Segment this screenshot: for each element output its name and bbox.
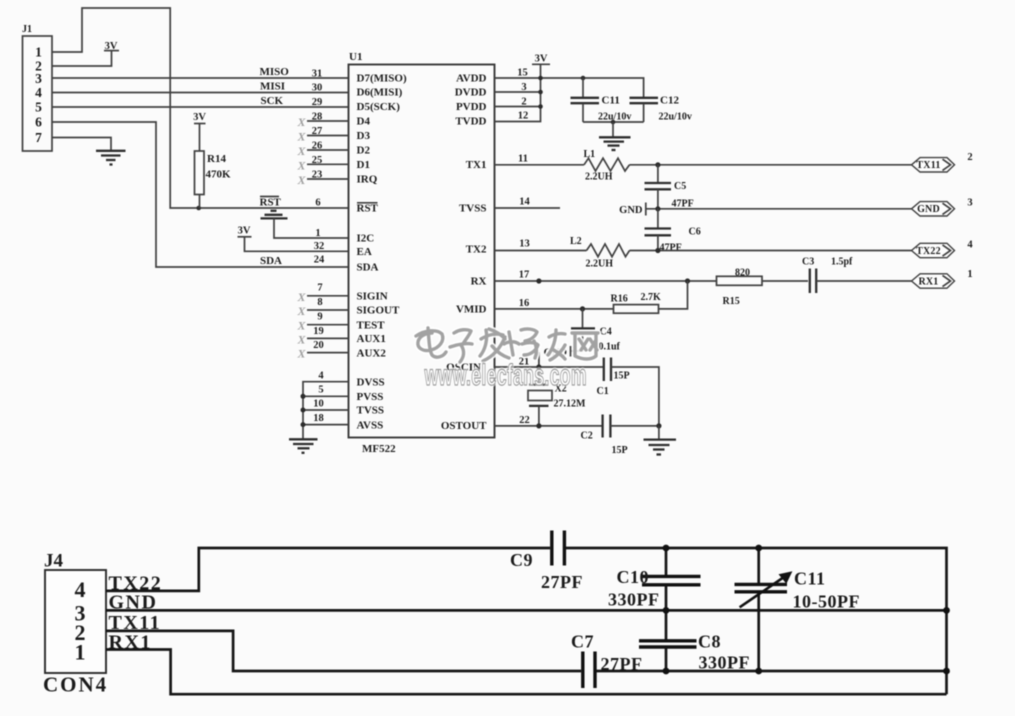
- svg-text:3V: 3V: [535, 54, 548, 65]
- svg-text:4: 4: [35, 85, 42, 100]
- svg-text:I2C: I2C: [357, 233, 375, 245]
- capacitor C8 330PF: [639, 610, 750, 672]
- wire GND rail: [106, 609, 947, 612]
- wire TVDD pin12 and VDD vertical: [495, 64, 541, 121]
- node C1/C2 ground: [656, 423, 661, 428]
- node GND-C5/C6: [655, 206, 660, 211]
- svg-text:1: 1: [315, 228, 320, 239]
- pin 9 stub with no-connect: [307, 324, 349, 326]
- svg-text:27.12M: 27.12M: [554, 399, 587, 410]
- svg-text:J1: J1: [22, 24, 32, 35]
- svg-text:D1: D1: [357, 159, 370, 171]
- wire MISO J1 pin3 to U1 pin31: [52, 77, 349, 79]
- node OSTOUT-crystal: [536, 423, 541, 428]
- node TX11 rail C11: [755, 668, 762, 675]
- svg-text:OSTOUT: OSTOUT: [441, 420, 487, 432]
- svg-text:18: 18: [313, 413, 324, 424]
- svg-text:X: X: [296, 115, 306, 129]
- svg-text:D6(MISI): D6(MISI): [357, 87, 403, 99]
- svg-text:U1: U1: [349, 51, 362, 63]
- svg-text:R14: R14: [207, 153, 226, 165]
- svg-text:MISI: MISI: [260, 81, 285, 93]
- svg-text:2.7K: 2.7K: [641, 292, 662, 303]
- svg-text:GND: GND: [917, 204, 940, 215]
- pin 19 stub with no-connect: [307, 337, 349, 339]
- port tag TX22: [912, 240, 974, 258]
- svg-text:C5: C5: [674, 181, 686, 192]
- svg-text:TX2: TX2: [466, 244, 487, 256]
- svg-text:C11: C11: [794, 569, 826, 589]
- svg-text:6: 6: [315, 198, 320, 209]
- wire TVSS pin14 stub: [495, 207, 561, 209]
- svg-text:X: X: [296, 144, 306, 158]
- wire J1 pin7 to ground: [52, 138, 111, 151]
- svg-text:1: 1: [967, 269, 972, 280]
- svg-text:32: 32: [314, 241, 325, 252]
- svg-text:3: 3: [967, 198, 972, 209]
- node RX-crystal branch: [536, 278, 541, 283]
- svg-text:C2: C2: [581, 431, 593, 442]
- U1 right pin labels: [441, 73, 487, 432]
- resistor R15 820: [717, 268, 809, 308]
- svg-text:X: X: [296, 173, 306, 187]
- capacitor C10 330PF: [608, 548, 701, 610]
- svg-text:AUX2: AUX2: [357, 347, 387, 359]
- node TX2-C6: [655, 248, 660, 253]
- svg-text:47PF: 47PF: [660, 243, 682, 254]
- pin 20 stub with no-connect: [307, 352, 349, 354]
- svg-text:SCK: SCK: [261, 95, 284, 107]
- svg-text:D3: D3: [357, 130, 371, 142]
- svg-text:TVDD: TVDD: [455, 116, 486, 128]
- node VMID-C4: [580, 306, 585, 311]
- svg-text:TX11: TX11: [916, 160, 940, 171]
- svg-text:SDA: SDA: [260, 255, 282, 267]
- capacitor C9 27PF: [510, 531, 583, 593]
- net label GND tick (C4): [544, 346, 571, 359]
- svg-text:22u/10v: 22u/10v: [659, 112, 692, 123]
- wire TX22 J4 pin4 to top rail: [106, 548, 550, 591]
- svg-text:L2: L2: [570, 236, 582, 247]
- svg-text:D4: D4: [357, 116, 371, 128]
- capacitor C3 1.5pf: [802, 257, 853, 294]
- pin 28 stub with no-connect: [307, 120, 349, 122]
- svg-text:29: 29: [312, 97, 323, 108]
- U1 left pin labels: [357, 73, 407, 432]
- svg-text:TVSS: TVSS: [357, 405, 385, 417]
- node AVDD-3V: [538, 76, 543, 81]
- svg-text:22: 22: [519, 415, 530, 426]
- port tag GND: [912, 198, 973, 217]
- svg-text:GND: GND: [619, 205, 643, 216]
- wire TX11 J4 pin2 rail: [106, 631, 581, 671]
- resistor R16 2.7K: [611, 292, 662, 313]
- svg-text:X: X: [296, 158, 306, 172]
- node RX-R16: [685, 278, 690, 283]
- wire AVDD pin15 rail to C12: [495, 78, 644, 98]
- svg-text:TX1: TX1: [466, 159, 487, 171]
- ground (C11/C12): [599, 122, 631, 150]
- U1 left pin numbers: [312, 69, 325, 425]
- svg-text:14: 14: [519, 197, 530, 208]
- wire SCK J1 pin5 to U1 pin29: [52, 106, 349, 108]
- svg-text:IRQ: IRQ: [357, 174, 378, 186]
- wire PVSS stub: [303, 395, 349, 397]
- svg-text:15P: 15P: [612, 445, 628, 456]
- node TX1-C5: [655, 162, 660, 167]
- svg-text:RX: RX: [471, 276, 487, 288]
- svg-text:20: 20: [313, 340, 324, 351]
- capacitor C5 47PF: [645, 165, 694, 210]
- watermark: [416, 328, 598, 362]
- svg-text:AVSS: AVSS: [357, 419, 384, 431]
- svg-text:DVSS: DVSS: [357, 376, 385, 388]
- svg-text:12: 12: [518, 111, 529, 122]
- inductor L2 2.2UH: [570, 236, 630, 270]
- wire I2C pin1: [274, 218, 349, 238]
- capacitor C2 15P: [581, 415, 628, 457]
- svg-text:X: X: [296, 332, 306, 346]
- node ground rail: [611, 120, 616, 125]
- ground (VSS bus): [289, 439, 318, 453]
- capacitor C6 47PF: [645, 209, 701, 254]
- capacitor C12 22u/10v: [630, 95, 692, 123]
- svg-text:SIGOUT: SIGOUT: [357, 305, 400, 317]
- svg-text:VMID: VMID: [456, 304, 487, 316]
- node TX11 rail C8: [663, 668, 670, 675]
- wire top rail C9 to right vertical: [566, 548, 947, 694]
- svg-text:5: 5: [35, 100, 42, 115]
- wire MISI J1 pin4 to U1 pin30: [52, 92, 349, 94]
- svg-text:X: X: [296, 347, 306, 361]
- wire C3 to RX1 tag: [816, 280, 911, 282]
- svg-text:R16: R16: [611, 294, 628, 305]
- variable capacitor C11 10-50PF: [735, 548, 860, 671]
- net label GND tick: [619, 203, 646, 217]
- port tag RX1: [912, 269, 973, 288]
- svg-text:SIGIN: SIGIN: [357, 291, 388, 303]
- svg-text:4: 4: [967, 240, 973, 251]
- pin 7 stub with no-connect: [307, 295, 349, 297]
- svg-text:330PF: 330PF: [699, 653, 751, 673]
- wire J1 pin1 to RST net: [52, 8, 349, 208]
- capacitor C11 22u/10v: [571, 78, 632, 123]
- svg-text:330PF: 330PF: [608, 590, 660, 610]
- resistor R14: [195, 151, 232, 208]
- svg-text:3: 3: [521, 82, 526, 93]
- ground (J1 pin7): [96, 151, 126, 165]
- connector J4: [43, 551, 108, 697]
- inductor L1 2.2UH: [584, 149, 630, 183]
- node RST junction R14: [196, 206, 201, 211]
- power 3V (EA): [238, 226, 252, 237]
- pin 23 stub with no-connect: [307, 178, 349, 180]
- svg-text:J4: J4: [44, 551, 64, 572]
- svg-text:RX1: RX1: [918, 276, 938, 287]
- svg-text:PVSS: PVSS: [357, 391, 384, 403]
- svg-text:47PF: 47PF: [672, 199, 694, 210]
- svg-text:TVSS: TVSS: [459, 203, 487, 215]
- svg-text:27PF: 27PF: [541, 572, 583, 592]
- IC U1 MF522: [349, 51, 495, 455]
- pin 25 stub with no-connect: [307, 163, 349, 165]
- svg-text:1: 1: [75, 639, 86, 664]
- wire TX1 pin11: [495, 164, 585, 166]
- svg-text:11: 11: [518, 154, 528, 165]
- svg-text:MISO: MISO: [260, 66, 290, 78]
- node TVSS: [301, 408, 306, 413]
- svg-text:15: 15: [517, 68, 528, 79]
- wire PVDD pin2 stub: [495, 106, 541, 108]
- svg-text:15P: 15P: [614, 371, 630, 382]
- connector J1: [22, 24, 52, 151]
- svg-text:C9: C9: [510, 550, 533, 570]
- svg-text:10-50PF: 10-50PF: [793, 592, 860, 612]
- svg-text:D2: D2: [357, 145, 371, 157]
- svg-text:C3: C3: [802, 257, 814, 268]
- wire C11-C12 ground rail: [583, 121, 644, 123]
- ground (C1/C2): [644, 426, 677, 455]
- svg-text:17: 17: [519, 270, 530, 281]
- power 3V (R14): [193, 112, 206, 151]
- ground (RST pull): [261, 211, 288, 219]
- pin 26 stub with no-connect: [307, 149, 349, 151]
- wire TX2 pin13: [495, 250, 587, 252]
- svg-text:16: 16: [519, 298, 530, 309]
- svg-text:X: X: [296, 304, 306, 318]
- svg-text:C8: C8: [698, 632, 721, 652]
- wire C2 to ground: [610, 425, 659, 427]
- wire AVSS stub: [303, 424, 349, 426]
- svg-text:C10: C10: [617, 567, 650, 587]
- svg-text:X: X: [296, 319, 306, 333]
- wire RX pin17: [495, 280, 717, 282]
- svg-text:24: 24: [314, 255, 325, 266]
- svg-text:X: X: [296, 290, 306, 304]
- svg-text:C6: C6: [689, 227, 701, 238]
- net label RST: [260, 197, 282, 209]
- svg-text:C7: C7: [571, 632, 594, 652]
- svg-text:2: 2: [967, 152, 972, 163]
- svg-text:3V: 3V: [105, 41, 118, 52]
- svg-text:13: 13: [519, 239, 530, 250]
- power 3V (J1): [104, 41, 119, 52]
- svg-text:10: 10: [313, 399, 324, 410]
- svg-text:X: X: [296, 130, 306, 144]
- svg-text:L1: L1: [584, 149, 596, 160]
- svg-text:19: 19: [313, 326, 324, 337]
- svg-text:2.2UH: 2.2UH: [585, 172, 613, 183]
- svg-text:0.1uf: 0.1uf: [599, 342, 621, 353]
- node GND rail right: [943, 607, 950, 614]
- node TX11 rail right: [943, 668, 950, 675]
- pin 27 stub with no-connect: [307, 135, 349, 137]
- node PVSS: [301, 394, 306, 399]
- svg-text:RST: RST: [357, 203, 379, 215]
- svg-text:7: 7: [35, 130, 42, 145]
- power 3V (VDD rail): [532, 54, 550, 65]
- wire TVSS stub: [303, 409, 349, 411]
- svg-text:TEST: TEST: [357, 319, 386, 331]
- node GND rail C10/C8: [663, 607, 670, 614]
- wire VSS bus: [303, 382, 349, 439]
- wire OSTOUT pin22: [495, 425, 603, 427]
- svg-text:470K: 470K: [206, 169, 232, 181]
- node AVDD-C11: [581, 76, 586, 81]
- U1 right pin numbers: [517, 68, 530, 427]
- svg-text:5: 5: [318, 385, 323, 396]
- wire RX to OSCIN vertical (mostly hidden by watermark in scan): [538, 352, 540, 367]
- node AVSS: [301, 422, 306, 427]
- wire GND net to GND tag: [646, 208, 912, 210]
- svg-text:C11: C11: [602, 95, 620, 107]
- wire TX11 rail C7 to right vertical: [597, 670, 947, 673]
- svg-text:AUX1: AUX1: [357, 333, 386, 345]
- svg-text:6: 6: [35, 115, 42, 130]
- svg-text:RST: RST: [260, 197, 282, 209]
- svg-text:CON4: CON4: [43, 673, 108, 697]
- node top rail C11: [755, 545, 762, 552]
- svg-text:AVDD: AVDD: [456, 73, 486, 85]
- svg-text:3: 3: [35, 71, 42, 86]
- svg-text:8: 8: [317, 297, 322, 308]
- wire VMID pin16: [495, 308, 614, 310]
- wire R16 to RX: [659, 281, 688, 309]
- svg-text:D7(MISO): D7(MISO): [357, 73, 407, 85]
- svg-text:EA: EA: [357, 246, 372, 258]
- svg-text:3V: 3V: [238, 226, 251, 237]
- wire DVDD pin3 stub: [495, 91, 541, 93]
- svg-text:D5(SCK): D5(SCK): [357, 101, 401, 113]
- svg-text:1.5pf: 1.5pf: [831, 257, 853, 268]
- capacitor C4 0.1uf: [571, 309, 621, 353]
- svg-text:R15: R15: [723, 296, 740, 307]
- svg-text:4: 4: [75, 577, 86, 602]
- capacitor C1 15P: [597, 358, 630, 398]
- svg-text:30: 30: [312, 83, 323, 94]
- svg-text:4: 4: [318, 371, 324, 382]
- svg-text:C12: C12: [660, 95, 679, 107]
- svg-text:9: 9: [317, 312, 322, 323]
- svg-text:1: 1: [35, 45, 42, 60]
- port tag TX11: [912, 152, 973, 172]
- wire TX1 to TX11 tag: [630, 164, 912, 166]
- node top rail C10: [663, 545, 670, 552]
- svg-text:TX22: TX22: [916, 246, 941, 257]
- crystal X2 27.12M: [528, 367, 586, 426]
- wire RX1 J4 pin1 to bottom rail: [106, 650, 947, 695]
- svg-text:7: 7: [317, 283, 322, 294]
- svg-text:2: 2: [521, 97, 526, 108]
- node OSCIN-crystal: [536, 364, 541, 369]
- svg-text:31: 31: [312, 69, 323, 80]
- wire OSCIN pin21: [495, 366, 605, 368]
- svg-text:2.2UH: 2.2UH: [586, 259, 614, 270]
- svg-text:MF522: MF522: [362, 443, 396, 455]
- pin 8 stub with no-connect: [307, 309, 349, 311]
- node PVDD: [538, 104, 543, 109]
- wire EA pin32: [245, 237, 349, 252]
- svg-text:3V: 3V: [193, 112, 206, 123]
- wire SDA J1 pin6 to U1 pin24: [52, 122, 349, 267]
- svg-text:SDA: SDA: [357, 262, 379, 274]
- svg-text:820: 820: [735, 268, 750, 279]
- wire TX2 to TX22 tag: [630, 250, 912, 252]
- svg-text:www.elecfans.com: www.elecfans.com: [424, 359, 587, 392]
- wire C1 to ground corner: [611, 367, 659, 426]
- svg-text:PVDD: PVDD: [456, 101, 487, 113]
- capacitor C7 27PF: [571, 632, 643, 689]
- wire J1 pin2 to 3V: [52, 51, 112, 66]
- node DVDD: [538, 90, 543, 95]
- svg-text:DVDD: DVDD: [455, 87, 487, 99]
- svg-text:C1: C1: [597, 386, 609, 397]
